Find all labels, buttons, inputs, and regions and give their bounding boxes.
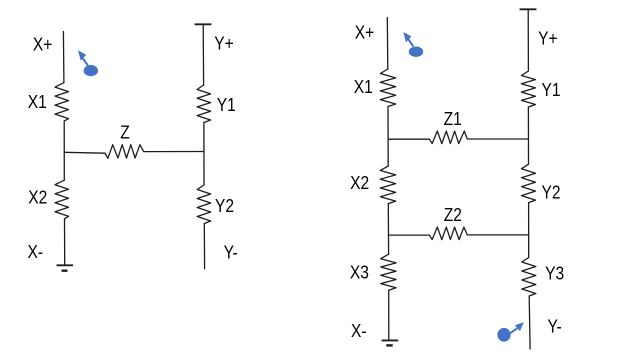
svg-text:X2: X2 — [28, 187, 47, 207]
svg-text:Z2: Z2 — [444, 205, 462, 225]
svg-text:X-: X- — [28, 242, 44, 262]
svg-text:X3: X3 — [350, 262, 369, 282]
svg-text:Y2: Y2 — [542, 182, 561, 202]
svg-text:X+: X+ — [33, 34, 53, 54]
svg-text:Y+: Y+ — [214, 33, 234, 53]
svg-text:X1: X1 — [354, 77, 373, 97]
svg-text:Y-: Y- — [224, 242, 238, 262]
svg-text:Z: Z — [120, 122, 130, 142]
svg-text:Y1: Y1 — [542, 80, 561, 100]
svg-text:X-: X- — [351, 321, 367, 341]
svg-text:Y1: Y1 — [217, 95, 236, 115]
svg-text:X2: X2 — [350, 173, 369, 193]
svg-text:X+: X+ — [355, 23, 375, 43]
svg-text:Z1: Z1 — [444, 109, 462, 129]
svg-text:Y3: Y3 — [545, 263, 564, 283]
svg-text:Y+: Y+ — [538, 28, 558, 48]
svg-text:X1: X1 — [28, 92, 47, 112]
svg-text:Y2: Y2 — [215, 196, 234, 216]
svg-text:Y-: Y- — [548, 316, 562, 336]
